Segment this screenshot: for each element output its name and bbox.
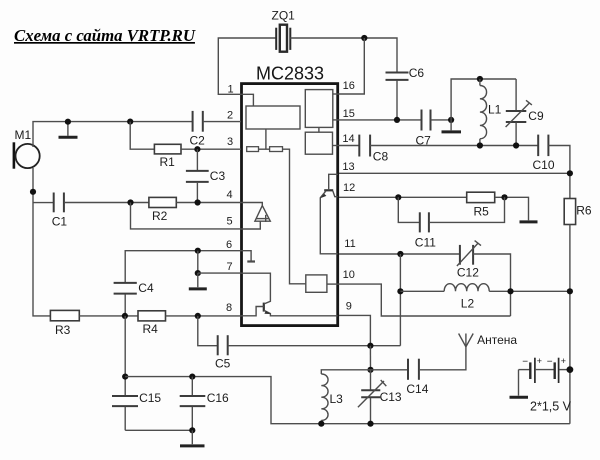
node dot L2 left — [397, 288, 403, 294]
ground at mic top node — [59, 122, 78, 138]
variable capacitor C9 — [506, 79, 532, 146]
svg-text:C15: C15 — [139, 391, 161, 405]
wire C2 to pin 2 — [203, 121, 241, 123]
IC internal transistor Q2 — [320, 174, 338, 254]
node dot L1 top — [477, 76, 483, 82]
wire reactance block to pin14 — [333, 145, 340, 147]
IC internal transistor Q1 — [241, 273, 338, 316]
wire pin 9 jog — [339, 315, 370, 345]
node dot pin7 — [195, 270, 201, 276]
wire R4 to pin 8 — [166, 315, 242, 317]
IC internal varactor triangle — [241, 203, 270, 230]
node dot tank left — [448, 117, 454, 123]
wire mic bottom rail down to R3 — [33, 168, 50, 316]
svg-text:R2: R2 — [152, 209, 168, 223]
svg-text:C8: C8 — [373, 149, 389, 163]
node dot L2 right — [507, 288, 513, 294]
wire pin 13 — [339, 172, 570, 174]
wire tank top — [451, 79, 516, 120]
ground at C7 node — [442, 120, 462, 132]
capacitor C4 — [114, 283, 137, 316]
node dot on mic bottom wire — [30, 189, 36, 195]
node dot crystal/pin16 — [361, 35, 367, 41]
svg-text:R5: R5 — [474, 205, 490, 219]
wire C5 to node X — [228, 345, 401, 347]
antenna symbol — [459, 334, 474, 347]
resistor R6 — [564, 199, 575, 225]
wire crystal to C6 top — [290, 38, 397, 72]
IC internal pin6 stub — [241, 251, 255, 262]
capacitor C2 — [193, 111, 203, 132]
svg-text:C16: C16 — [207, 391, 229, 405]
wire right rail below R6 — [569, 225, 571, 424]
variable capacitor C13 — [358, 370, 386, 424]
wire pin8 node down to C5 — [198, 316, 218, 346]
svg-text:7: 7 — [227, 261, 233, 273]
svg-text:C2: C2 — [190, 134, 206, 148]
node dot mic-top ground — [65, 119, 71, 125]
node dot R5 left — [395, 194, 401, 200]
IC internal reactance block — [305, 132, 332, 154]
capacitor C7 — [422, 110, 431, 131]
wire C1 to R2 — [64, 202, 149, 204]
svg-text:C9: C9 — [528, 109, 544, 123]
svg-text:L2: L2 — [461, 297, 475, 311]
node dot C9 bottom — [513, 142, 519, 148]
wire pin11 node down to L2 — [399, 254, 401, 346]
node dot pin13 right rail — [567, 170, 573, 176]
svg-text:−: − — [547, 357, 553, 368]
wire block bottom tap — [265, 129, 267, 149]
wire mic top to node — [33, 122, 192, 147]
svg-text:12: 12 — [343, 182, 355, 194]
svg-text:−: − — [522, 357, 528, 368]
svg-text:ZQ1: ZQ1 — [272, 9, 296, 23]
node dot pin11 branch — [397, 251, 403, 257]
wire R5 right to ground — [495, 197, 529, 220]
resistor R3 — [50, 310, 79, 320]
inductor L3 — [321, 374, 328, 424]
wire C10 to right rail — [548, 146, 570, 199]
wire internal resistor b to buffer block — [283, 149, 306, 284]
svg-text:C14: C14 — [406, 382, 428, 396]
svg-text:C5: C5 — [215, 356, 231, 370]
svg-text:Антена: Антена — [477, 333, 517, 347]
node dot C13 bottom — [367, 421, 373, 427]
svg-text:R6: R6 — [576, 203, 592, 217]
node dot L1 bottom — [477, 142, 483, 148]
svg-text:C13: C13 — [380, 390, 402, 404]
svg-text:4: 4 — [227, 189, 233, 201]
svg-text:M1: M1 — [15, 128, 32, 142]
wire antenna node to C14 — [371, 369, 409, 371]
inductor L2 — [400, 284, 570, 292]
node dot antenna junction — [367, 367, 373, 373]
node dot pin6/pin7 branch — [195, 248, 201, 254]
wire R1 to pin 3 — [181, 148, 241, 150]
resistor R1 — [154, 144, 181, 154]
wire pin 12 to R5 — [339, 196, 467, 198]
svg-text:C1: C1 — [52, 215, 68, 229]
wire pin 1 up to crystal — [218, 38, 276, 94]
node dot C15 top — [122, 374, 128, 380]
svg-text:C11: C11 — [415, 235, 436, 249]
node dot pin4 C3 bottom — [195, 199, 201, 205]
wire node down to R1 — [130, 122, 154, 150]
svg-text:MC2833: MC2833 — [256, 64, 324, 84]
svg-text:2: 2 — [227, 110, 233, 122]
capacitor C1 — [54, 193, 64, 213]
wire R3 to R4 — [79, 315, 138, 317]
svg-text:6: 6 — [226, 239, 232, 251]
resistor R4 — [138, 311, 166, 321]
svg-text:14: 14 — [342, 133, 354, 145]
capacitor C6 — [386, 73, 409, 120]
battery BT1 2x1.5V — [519, 356, 570, 383]
IC internal resistor b — [270, 147, 283, 152]
microphone M1 — [14, 142, 40, 168]
variable capacitor C12 — [457, 241, 481, 266]
wire tank bottom rail — [370, 145, 538, 147]
wire pin 7 — [198, 272, 241, 274]
node dot R5 right — [501, 194, 507, 200]
wire pin1 internal — [241, 94, 253, 106]
capacitor C3 — [186, 149, 209, 202]
svg-text:R4: R4 — [143, 322, 159, 336]
wire R2 to pin 4 — [176, 202, 241, 204]
svg-text:10: 10 — [343, 269, 355, 281]
node dot C6 bottom pin15 — [394, 117, 400, 123]
wire osc block to pin16 — [333, 93, 339, 95]
crystal ZQ1 — [276, 25, 290, 52]
ground at R5 right — [520, 220, 538, 223]
svg-text:1: 1 — [228, 84, 234, 96]
svg-text:R1: R1 — [160, 155, 176, 169]
IC U1 MC2833 outline — [242, 84, 338, 326]
node dot C16 bottom — [189, 427, 195, 433]
capacitor C5 — [218, 335, 228, 355]
capacitor C16 — [180, 377, 206, 431]
node dot right rail L2 — [567, 288, 573, 294]
wire pin 14 to C8 — [339, 145, 359, 147]
wire C7 to tank node — [431, 119, 452, 121]
wire pin 16 — [339, 38, 364, 94]
wire pin 15 to C7 — [339, 119, 422, 121]
IC internal mic-amp block — [246, 106, 300, 129]
wire between internal resistors — [259, 148, 270, 150]
svg-text:R3: R3 — [55, 323, 71, 337]
inductor L1 — [480, 79, 487, 146]
resistor R5 — [467, 192, 495, 202]
node dot R1 branch — [127, 119, 133, 125]
node dot pin3 C3 branch — [194, 146, 200, 152]
node dot battery plus right rail — [567, 366, 574, 373]
wire L3 top branch — [321, 370, 370, 374]
ground below C16 — [180, 430, 205, 446]
svg-text:8: 8 — [226, 302, 232, 314]
IC internal buffer block pin10 — [306, 275, 327, 292]
resistor R2 — [149, 197, 176, 207]
node dot C4/R3R4 — [122, 313, 128, 319]
svg-text:16: 16 — [343, 80, 355, 92]
wire branch to pin 5 — [131, 203, 242, 229]
wire C12 right down — [473, 254, 510, 316]
wire C14 to antenna — [419, 347, 466, 370]
svg-text:3: 3 — [227, 136, 233, 148]
wire pin 6 to C4 branch — [125, 251, 241, 283]
IC internal resistor a — [247, 147, 259, 152]
ground at battery minus — [510, 370, 529, 398]
IC internal oscillator block — [305, 90, 333, 128]
capacitor C15 — [112, 396, 138, 430]
svg-text:Схема с сайта VRTP.RU: Схема с сайта VRTP.RU — [14, 26, 196, 45]
node dot L3 bottom — [318, 421, 324, 427]
node dot pin8 branch — [195, 313, 201, 319]
wire pin 10 jog — [339, 284, 511, 316]
svg-text:15: 15 — [343, 108, 355, 120]
node dot C16 top — [189, 374, 195, 380]
wire buffer block to pin10 — [327, 283, 339, 285]
svg-text:5: 5 — [227, 215, 233, 227]
wire pin 11 — [339, 253, 460, 255]
svg-text:+: + — [561, 356, 566, 366]
svg-text:+: + — [537, 356, 542, 366]
wire osc to reactance block — [318, 127, 320, 132]
wire pin6 node down to pin 7 — [197, 251, 199, 273]
wire tap to C1 — [33, 202, 54, 204]
wire C15 bottom to C16 bottom — [125, 429, 192, 431]
wire C15 branch vertical — [124, 316, 126, 396]
node dot C1/R2/pin5 branch — [127, 199, 133, 205]
wire bypass rail to corner — [125, 377, 570, 424]
svg-text:2*1,5 V: 2*1,5 V — [530, 399, 572, 413]
wire osc block to pin15 — [333, 119, 339, 121]
capacitor C11 — [398, 197, 504, 232]
capacitor C14 — [408, 359, 419, 380]
svg-text:L3: L3 — [330, 392, 344, 406]
capacitor C8 — [359, 135, 370, 157]
svg-text:13: 13 — [342, 161, 354, 173]
svg-text:C10: C10 — [533, 158, 555, 172]
svg-text:9: 9 — [346, 301, 352, 313]
node dot X C5 junction — [367, 343, 373, 349]
svg-text:C3: C3 — [210, 169, 226, 183]
wire node X down to antenna node — [369, 346, 371, 370]
svg-text:C6: C6 — [409, 66, 425, 80]
svg-text:L1: L1 — [488, 102, 502, 116]
capacitor C10 — [538, 135, 548, 157]
ground below pin7 node — [189, 273, 207, 289]
svg-text:C4: C4 — [138, 281, 154, 295]
svg-text:C12: C12 — [457, 266, 479, 280]
svg-text:11: 11 — [344, 238, 355, 250]
